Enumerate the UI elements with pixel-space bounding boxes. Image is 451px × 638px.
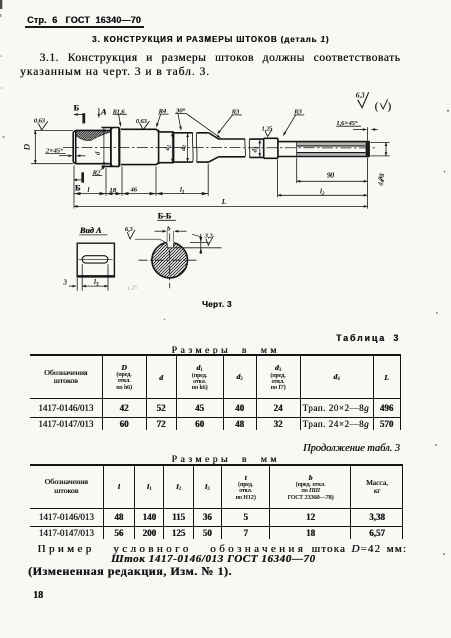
svg-text:d1: d1	[164, 145, 172, 151]
svg-text:A: A	[100, 108, 107, 117]
section mark B bottom	[81, 172, 84, 182]
razmery v mm 1	[172, 345, 280, 356]
shaft circle section	[152, 242, 188, 278]
svg-text:): )	[388, 102, 391, 113]
d3 continuation	[250, 139, 264, 157]
collar before thread	[264, 138, 278, 158]
centerline main shaft	[63, 146, 376, 149]
svg-text:46: 46	[130, 187, 137, 194]
page header	[27, 15, 141, 25]
razmery v mm 2	[172, 454, 280, 465]
view A dims 3 and l3	[77, 264, 108, 290]
thread end chamfer bar	[366, 141, 370, 156]
svg-text:d: d	[95, 151, 102, 155]
dim L	[74, 205, 367, 207]
section d2	[174, 133, 193, 162]
svg-text:3: 3	[62, 278, 67, 286]
svg-text:(: (	[375, 102, 379, 113]
svg-text:90: 90	[327, 172, 335, 180]
svg-text:6,3: 6,3	[125, 227, 132, 233]
thread outline	[278, 142, 370, 157]
dim D extension lines	[31, 130, 73, 163]
svg-text:d3: d3	[252, 146, 260, 152]
svg-text:d48g: d48g	[378, 173, 386, 186]
svg-text:l: l	[87, 186, 89, 194]
dim d3	[259, 140, 261, 157]
chain dim line	[74, 193, 208, 195]
svg-text:l2: l2	[320, 188, 325, 197]
tablitsa 3	[336, 333, 400, 343]
paper specks	[447, 110, 449, 112]
view direction arrow A	[98, 108, 100, 118]
svg-text:Б: Б	[75, 184, 80, 193]
dim 90	[297, 180, 368, 182]
dim b	[167, 231, 174, 242]
svg-text:l3: l3	[94, 278, 99, 287]
keyway slot cut	[167, 241, 174, 247]
svg-text:Б: Б	[74, 104, 79, 113]
d2 continuation	[197, 133, 209, 162]
prodolzhenie	[303, 443, 400, 454]
keyway slot view A	[82, 256, 108, 263]
keyway broken-out section hatch	[76, 131, 110, 141]
svg-text:Вид А: Вид А	[79, 226, 102, 235]
dim d2	[187, 134, 189, 162]
dim l2	[278, 194, 368, 196]
section heading	[92, 35, 329, 44]
dim t slot depth	[175, 242, 222, 247]
caption chert 3	[202, 300, 232, 309]
svg-text:d2: d2	[180, 145, 188, 151]
shaft section D piston end	[73, 130, 110, 163]
dim d4 8g	[371, 142, 390, 156]
extension lines bottom	[74, 158, 367, 209]
svg-text:3,2: 3,2	[204, 234, 213, 240]
svg-text:L: L	[221, 197, 226, 206]
primer text	[38, 543, 407, 555]
section d3 rod	[219, 139, 246, 157]
dim D line	[34, 130, 36, 163]
view A body	[77, 243, 114, 277]
svg-text:6,3: 6,3	[356, 93, 365, 100]
break lines d2	[192, 133, 197, 162]
thread crest lines	[297, 142, 366, 146]
break lines d3	[245, 139, 250, 157]
section B-B centerlines	[139, 233, 197, 288]
svg-text:0,63: 0,63	[136, 118, 147, 125]
section mark B top	[82, 113, 85, 123]
step face to collar	[110, 128, 112, 167]
big cylinder	[121, 129, 159, 164]
paragraph 3.1	[40, 52, 401, 64]
table 1	[30, 354, 401, 430]
svg-text:0,63: 0,63	[34, 118, 45, 125]
svg-text:D: D	[23, 144, 32, 151]
taper 30deg	[209, 133, 219, 162]
dim d on collar	[103, 128, 105, 166]
svg-text:18: 18	[109, 187, 116, 194]
svg-text:1,25: 1,25	[127, 285, 138, 292]
table 2	[30, 464, 403, 539]
page number	[33, 590, 43, 601]
svg-text:b: b	[167, 225, 171, 232]
paper specks lower page	[443, 553, 445, 555]
section d1	[159, 132, 174, 163]
svg-text:l1: l1	[180, 186, 184, 195]
svg-text:Б-Б: Б-Б	[158, 212, 172, 221]
collar d	[102, 128, 120, 167]
dim d1	[171, 133, 173, 163]
